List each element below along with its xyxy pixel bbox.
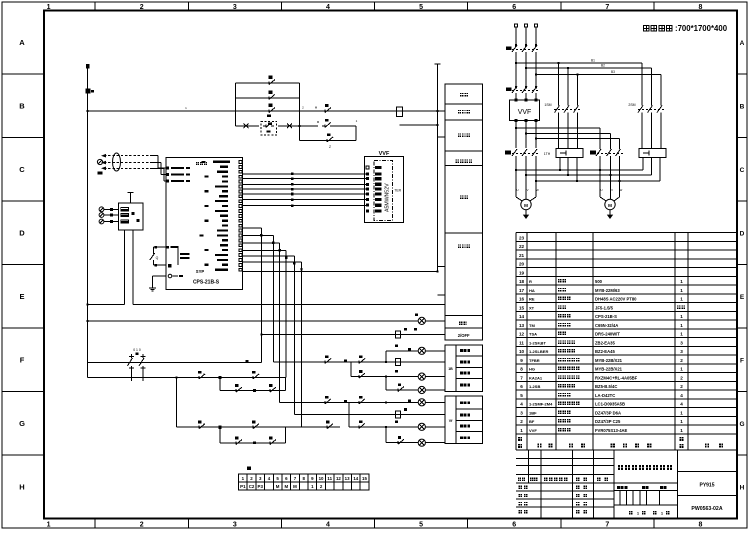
terminal XT 26 bbox=[325, 482, 334, 490]
svg-text:BZ5-B.5/4C: BZ5-B.5/4C bbox=[595, 384, 617, 389]
thermal relay 2TH bbox=[639, 149, 666, 158]
svg-text:C: C bbox=[740, 167, 745, 174]
svg-text:14: 14 bbox=[353, 476, 358, 481]
mark bbox=[253, 389, 256, 392]
branch wire y351 bbox=[385, 351, 387, 362]
svg-text:FVR075S13-4AE: FVR075S13-4AE bbox=[595, 428, 628, 433]
zone tick left bbox=[2, 73, 44, 75]
svg-text:CPS-21B-S: CPS-21B-S bbox=[193, 280, 220, 286]
svg-text:M: M bbox=[276, 484, 280, 489]
left rail bbox=[87, 111, 89, 377]
svg-text:B3: B3 bbox=[611, 70, 615, 74]
node N terminal bbox=[86, 64, 90, 68]
supply terminal L3 bbox=[535, 24, 538, 27]
bus stub bbox=[437, 294, 445, 296]
BOM header bbox=[518, 437, 522, 441]
wire tap2 bbox=[526, 67, 652, 69]
svg-text:8: 8 bbox=[520, 367, 523, 372]
zone tick bottom bbox=[280, 519, 282, 529]
svg-text:MYB-22B/X21: MYB-22B/X21 bbox=[595, 367, 623, 372]
node bbox=[535, 180, 537, 182]
legend cell bbox=[456, 379, 482, 392]
TV primary leads bbox=[104, 208, 118, 210]
BOM row 12 name bbox=[558, 332, 562, 336]
wire 2TH output drops bbox=[642, 158, 644, 171]
svg-text:Z: Z bbox=[329, 145, 331, 149]
fuse FU2 bbox=[397, 107, 403, 117]
zone tick right bbox=[737, 391, 747, 393]
wire bbox=[153, 246, 166, 248]
svg-text:C2: C2 bbox=[249, 484, 255, 489]
PLC controller U1 CPS-21B-S bbox=[166, 158, 243, 290]
terminal XT 5 bbox=[273, 474, 282, 482]
svg-text:M: M bbox=[284, 484, 288, 489]
svg-text:A5MWN52V: A5MWN52V bbox=[385, 183, 391, 212]
branch wire y415 bbox=[294, 414, 445, 416]
relay rung y334 wire bbox=[261, 333, 445, 335]
node bbox=[87, 304, 89, 306]
svg-text:8: 8 bbox=[698, 4, 702, 11]
svg-text:G: G bbox=[19, 419, 25, 428]
legend box bbox=[445, 151, 483, 166]
contact SB2 bbox=[196, 426, 199, 428]
wire to legend strip bbox=[133, 304, 445, 306]
circuit breaker 2QF bbox=[512, 86, 517, 93]
terminal strip XT label bbox=[247, 467, 251, 471]
wire to motor M2 bbox=[599, 156, 601, 197]
indicator lamp HL4 bbox=[418, 399, 425, 406]
relay coil KA1 bbox=[395, 358, 400, 365]
svg-text:4: 4 bbox=[326, 522, 330, 529]
PLC right pin column bbox=[239, 161, 242, 164]
terminal XT 12 bbox=[334, 474, 343, 482]
svg-text:ZB2-EA35: ZB2-EA35 bbox=[595, 340, 615, 345]
indicator lamp HL5 bbox=[418, 423, 425, 430]
wire bbox=[526, 133, 611, 135]
zone tick right bbox=[737, 73, 747, 75]
contact KM aux bbox=[266, 82, 269, 84]
legend group 1B bbox=[445, 345, 456, 392]
legend cell bbox=[456, 409, 482, 420]
svg-text:E: E bbox=[19, 292, 24, 301]
terminal XT 28 bbox=[343, 482, 352, 490]
wire VVF outputs bbox=[515, 121, 517, 148]
BOM row 7 name bbox=[558, 375, 562, 379]
BOM row 2 name bbox=[558, 419, 562, 423]
svg-text:F: F bbox=[20, 355, 25, 364]
signature row 校对 bbox=[519, 494, 522, 497]
svg-text:11: 11 bbox=[327, 476, 332, 481]
svg-text:1: 1 bbox=[47, 522, 51, 529]
signature row 设计 bbox=[519, 486, 522, 489]
svg-text:16: 16 bbox=[519, 297, 525, 302]
node bbox=[385, 376, 387, 378]
terminal XT 24 bbox=[308, 482, 317, 490]
terminal XT 30 bbox=[360, 482, 369, 490]
svg-text:BF: BF bbox=[529, 419, 535, 424]
svg-text:1TH: 1TH bbox=[544, 152, 551, 156]
svg-text:BZ2-EA45: BZ2-EA45 bbox=[595, 349, 615, 354]
supply terminal L1 bbox=[515, 24, 518, 27]
wire label bbox=[246, 360, 249, 363]
mark bbox=[253, 442, 256, 445]
svg-text:LA-D42TC: LA-D42TC bbox=[595, 393, 615, 398]
svg-text:DZ47/3P C25: DZ47/3P C25 bbox=[595, 419, 621, 424]
svg-text:DH48S AC220V PT80: DH48S AC220V PT80 bbox=[595, 297, 637, 302]
zone tick top bbox=[374, 2, 376, 11]
bus stub bbox=[437, 136, 445, 138]
svg-text:1: 1 bbox=[680, 323, 683, 328]
zone tick right bbox=[737, 264, 747, 266]
svg-text:12: 12 bbox=[519, 332, 525, 337]
wire bbox=[536, 138, 620, 140]
indicator lamp HL6 bbox=[418, 439, 425, 446]
terminal XT 20 bbox=[273, 482, 282, 490]
svg-text:15: 15 bbox=[519, 305, 525, 310]
svg-text:3: 3 bbox=[680, 340, 683, 345]
relay coil KA0 bbox=[395, 331, 400, 338]
legend cell bbox=[456, 432, 482, 444]
stage mark row bbox=[614, 489, 678, 491]
terminal XT 16 bbox=[239, 482, 248, 490]
svg-text:14: 14 bbox=[519, 314, 525, 319]
node bbox=[577, 74, 579, 76]
zone tick top bbox=[187, 2, 189, 11]
zone tick bottom bbox=[374, 519, 376, 529]
svg-text:5: 5 bbox=[520, 393, 523, 398]
svg-text:9: 9 bbox=[520, 358, 523, 363]
wire sub branch bbox=[236, 125, 259, 127]
svg-text:D: D bbox=[740, 230, 745, 237]
contact K3 bbox=[324, 426, 327, 428]
rung D wire y427 bbox=[349, 426, 418, 428]
node bbox=[260, 333, 262, 335]
svg-text:20: 20 bbox=[519, 262, 525, 267]
svg-text:Q: Q bbox=[156, 256, 159, 260]
svg-text:TM: TM bbox=[529, 323, 535, 328]
zone tick right bbox=[737, 200, 747, 202]
zone tick right bbox=[737, 137, 747, 139]
svg-text:H: H bbox=[740, 484, 745, 491]
svg-text:4: 4 bbox=[520, 402, 523, 407]
svg-text:1: 1 bbox=[680, 314, 683, 319]
wire group PLC to inverter terminals bbox=[243, 173, 367, 175]
PLC ground pin bbox=[168, 274, 172, 278]
svg-text:W: W bbox=[620, 188, 623, 192]
legend box bbox=[445, 166, 483, 234]
svg-text:KA2A1: KA2A1 bbox=[529, 375, 543, 380]
svg-text:19: 19 bbox=[519, 270, 525, 275]
svg-text:17: 17 bbox=[519, 288, 525, 293]
svg-text:6: 6 bbox=[512, 4, 516, 11]
wire bbox=[535, 27, 537, 44]
svg-text:HA: HA bbox=[529, 288, 535, 293]
contact KM aux bbox=[266, 110, 269, 112]
legend box bbox=[445, 84, 483, 104]
terminal XT 9 bbox=[308, 474, 317, 482]
svg-text:CPS-21B-S: CPS-21B-S bbox=[595, 314, 617, 319]
legend group Vf bbox=[445, 396, 456, 444]
node bbox=[436, 271, 438, 273]
svg-text:B: B bbox=[19, 101, 25, 110]
legend box MT bbox=[445, 315, 483, 328]
legend cell bbox=[456, 396, 482, 409]
contact SA1 bbox=[152, 247, 154, 252]
svg-text:4: 4 bbox=[680, 402, 683, 407]
terminal XT 2 bbox=[247, 474, 256, 482]
contactor contacts 2SM bbox=[641, 63, 643, 106]
svg-text:A: A bbox=[19, 38, 25, 47]
wire cross mark bbox=[287, 124, 292, 129]
terminal XT 21 bbox=[282, 482, 291, 490]
contactor contacts 1SM bbox=[558, 63, 560, 106]
svg-text:1B: 1B bbox=[448, 367, 453, 371]
svg-text:R: R bbox=[529, 279, 532, 284]
legend cell bbox=[456, 356, 482, 367]
svg-text:1: 1 bbox=[680, 279, 683, 284]
zone tick bottom bbox=[187, 519, 189, 529]
node bbox=[567, 67, 569, 69]
sheet count bbox=[629, 511, 632, 514]
svg-text:15: 15 bbox=[362, 476, 367, 481]
zone tick bottom bbox=[94, 519, 96, 529]
contact 2B bbox=[356, 361, 359, 363]
terminal XT 23 bbox=[299, 482, 308, 490]
svg-text:7: 7 bbox=[605, 4, 609, 11]
svg-text:F: F bbox=[740, 357, 744, 364]
BOM row 5 name bbox=[558, 393, 562, 397]
svg-text:XT: XT bbox=[529, 305, 535, 310]
node bbox=[87, 110, 89, 112]
revision header row bbox=[518, 478, 521, 481]
terminal XT 18 bbox=[256, 482, 265, 490]
link wire bbox=[348, 402, 350, 427]
node label bbox=[344, 400, 347, 403]
terminal XT 7 bbox=[291, 474, 300, 482]
wire bbox=[515, 27, 517, 44]
contact KM aux bbox=[266, 97, 269, 99]
node bbox=[436, 124, 438, 126]
svg-text:JF5-1.5/5: JF5-1.5/5 bbox=[595, 305, 614, 310]
wire 1TH output drops bbox=[559, 158, 561, 171]
terminal XT 14 bbox=[351, 474, 360, 482]
svg-text:1BF: 1BF bbox=[529, 410, 537, 415]
signature row 审核 bbox=[519, 502, 522, 505]
wire phase bus W bbox=[536, 180, 660, 182]
svg-text:HG: HG bbox=[529, 367, 535, 372]
wire cross mark bbox=[244, 124, 249, 129]
node tap L2 bbox=[525, 67, 527, 69]
wire phase bus U bbox=[516, 169, 643, 171]
PLC internal title bbox=[196, 162, 199, 165]
svg-text:B: B bbox=[740, 103, 745, 110]
terminal XT 15 bbox=[360, 474, 369, 482]
svg-text:RXZM4C+RL-4A05BF: RXZM4C+RL-4A05BF bbox=[595, 375, 638, 380]
pilot rung y321 wire bbox=[88, 320, 419, 322]
legend box 2/OFF bbox=[445, 328, 483, 340]
junction mark bbox=[218, 426, 221, 429]
contact A2 bbox=[267, 442, 270, 444]
svg-text:DRS-240W/T: DRS-240W/T bbox=[595, 332, 620, 337]
BOM row 14 name bbox=[558, 314, 562, 318]
node bbox=[610, 174, 612, 176]
branch wire y390 bbox=[385, 377, 387, 390]
terminal XT 29 bbox=[351, 482, 360, 490]
svg-text:1: 1 bbox=[680, 332, 683, 337]
svg-text:P3: P3 bbox=[258, 484, 264, 489]
node bbox=[558, 62, 560, 64]
contact 2M4 bbox=[322, 401, 325, 403]
signature rows bbox=[516, 490, 614, 492]
svg-text::700*1700*400: :700*1700*400 bbox=[675, 24, 728, 33]
terminal XT 10 bbox=[317, 474, 326, 482]
contact Z bbox=[324, 139, 327, 141]
BOM row 13 name bbox=[558, 323, 562, 327]
node bbox=[619, 180, 621, 182]
svg-text:G: G bbox=[739, 421, 744, 428]
svg-text:8: 8 bbox=[698, 522, 702, 529]
indicator lamp HL2 bbox=[418, 373, 425, 380]
contact n443 bbox=[395, 442, 398, 444]
node bbox=[576, 180, 578, 182]
svg-text:13: 13 bbox=[519, 323, 525, 328]
title block frame bbox=[516, 458, 614, 460]
svg-text:2/OFF: 2/OFF bbox=[458, 333, 470, 338]
svg-text:A: A bbox=[740, 40, 745, 47]
svg-text:2: 2 bbox=[520, 419, 523, 424]
contact A1 bbox=[267, 390, 270, 392]
node bbox=[525, 174, 527, 176]
contact SB1 bbox=[196, 376, 199, 378]
BOM row 16 name bbox=[558, 297, 562, 301]
node bbox=[385, 401, 387, 403]
zone tick top bbox=[560, 2, 562, 11]
svg-text:21: 21 bbox=[519, 253, 525, 258]
indicator lamp HL0 bbox=[418, 317, 425, 324]
svg-text:RE: RE bbox=[529, 297, 535, 302]
terminal XT 11 bbox=[325, 474, 334, 482]
legend cell bbox=[456, 420, 482, 431]
wire PLC pin to bus bbox=[243, 271, 438, 273]
zone tick top bbox=[653, 2, 655, 11]
svg-text:2SM: 2SM bbox=[628, 103, 635, 107]
svg-text:7: 7 bbox=[520, 375, 523, 380]
zone tick top bbox=[280, 2, 282, 11]
contact 2Bc bbox=[356, 401, 359, 403]
node bbox=[525, 133, 527, 135]
rung 1 wire bbox=[177, 376, 287, 378]
node label bbox=[344, 359, 347, 362]
svg-text:3: 3 bbox=[680, 349, 683, 354]
wire bbox=[355, 126, 357, 141]
svg-text:MYB-22M/63: MYB-22M/63 bbox=[595, 288, 620, 293]
terminal XT 17 bbox=[247, 482, 256, 490]
terminal XT 3 bbox=[256, 474, 265, 482]
node tap L3 bbox=[535, 74, 537, 76]
svg-text:1: 1 bbox=[520, 428, 523, 433]
svg-text:W: W bbox=[536, 188, 539, 192]
BOM row 17 name bbox=[558, 288, 562, 292]
terminal XT 8 bbox=[299, 474, 308, 482]
legend cell bbox=[456, 345, 482, 356]
node bbox=[176, 376, 178, 378]
BOM row 18 name bbox=[558, 279, 562, 283]
svg-text:M: M bbox=[608, 203, 612, 208]
svg-text:22: 22 bbox=[519, 244, 525, 249]
svg-text:H: H bbox=[19, 482, 24, 491]
legend box bbox=[445, 233, 483, 315]
wire phase bus V bbox=[526, 174, 652, 176]
terminal XT 1 bbox=[239, 474, 248, 482]
wire TV top to bus bbox=[129, 192, 131, 202]
thermal relay 1TH bbox=[556, 149, 583, 158]
svg-text:TFBR: TFBR bbox=[529, 358, 540, 363]
ground symbol bbox=[152, 285, 154, 288]
contact KM5 bbox=[233, 442, 236, 444]
svg-text:PY915: PY915 bbox=[699, 483, 714, 489]
svg-text:B1: B1 bbox=[591, 59, 595, 63]
wire main control bus bbox=[88, 110, 438, 112]
svg-text:2: 2 bbox=[140, 4, 144, 11]
svg-text:6: 6 bbox=[520, 384, 523, 389]
contact M4b bbox=[356, 376, 359, 378]
zone tick left bbox=[2, 327, 44, 329]
svg-text:13: 13 bbox=[345, 476, 350, 481]
contact 1M4 bbox=[322, 361, 325, 363]
svg-text:3: 3 bbox=[233, 522, 237, 529]
current transformer CT1 (dashed leads) bbox=[104, 155, 152, 157]
terminal XT 13 bbox=[343, 474, 352, 482]
label TA bbox=[98, 172, 103, 175]
svg-text:PW0563-02A: PW0563-02A bbox=[691, 506, 722, 512]
svg-text:1: 1 bbox=[680, 367, 683, 372]
rung2 parallel branch bbox=[219, 427, 221, 443]
wire bbox=[400, 124, 438, 126]
fuse 1FU bbox=[85, 89, 90, 94]
inverter VVF box bbox=[509, 100, 539, 121]
drawing title cell bbox=[614, 482, 678, 484]
zone tick left bbox=[2, 137, 44, 139]
ground for M1 bbox=[525, 210, 527, 213]
zone tick top bbox=[467, 2, 469, 11]
wire tap3 bbox=[536, 74, 661, 76]
svg-text:U: U bbox=[600, 188, 602, 192]
svg-text:2: 2 bbox=[680, 358, 683, 363]
wire CT to PLC bbox=[152, 155, 158, 157]
svg-text:1-2SMF-2M4: 1-2SMF-2M4 bbox=[529, 402, 553, 407]
svg-text:4: 4 bbox=[326, 4, 330, 11]
wire bbox=[515, 58, 517, 86]
svg-text:1: 1 bbox=[680, 419, 683, 424]
svg-text:6: 6 bbox=[512, 522, 516, 529]
zone tick right bbox=[737, 327, 747, 329]
svg-text:V: V bbox=[611, 188, 613, 192]
svg-text:1-2SB: 1-2SB bbox=[529, 384, 540, 389]
voltage transformer TV box bbox=[118, 203, 143, 230]
company cell bbox=[677, 450, 679, 519]
fuse-switch QS (control supply) bbox=[88, 362, 262, 364]
wire bbox=[516, 127, 600, 129]
BOM row 4 name bbox=[558, 402, 562, 406]
legend box bbox=[445, 120, 483, 151]
svg-text:E: E bbox=[740, 294, 745, 301]
node bbox=[515, 169, 517, 171]
junction mark bbox=[218, 376, 221, 379]
supply terminal L2 bbox=[525, 24, 528, 27]
contact M sub bbox=[322, 125, 325, 127]
relay contact branch group bbox=[235, 83, 237, 126]
wire tap1 bbox=[516, 62, 642, 64]
